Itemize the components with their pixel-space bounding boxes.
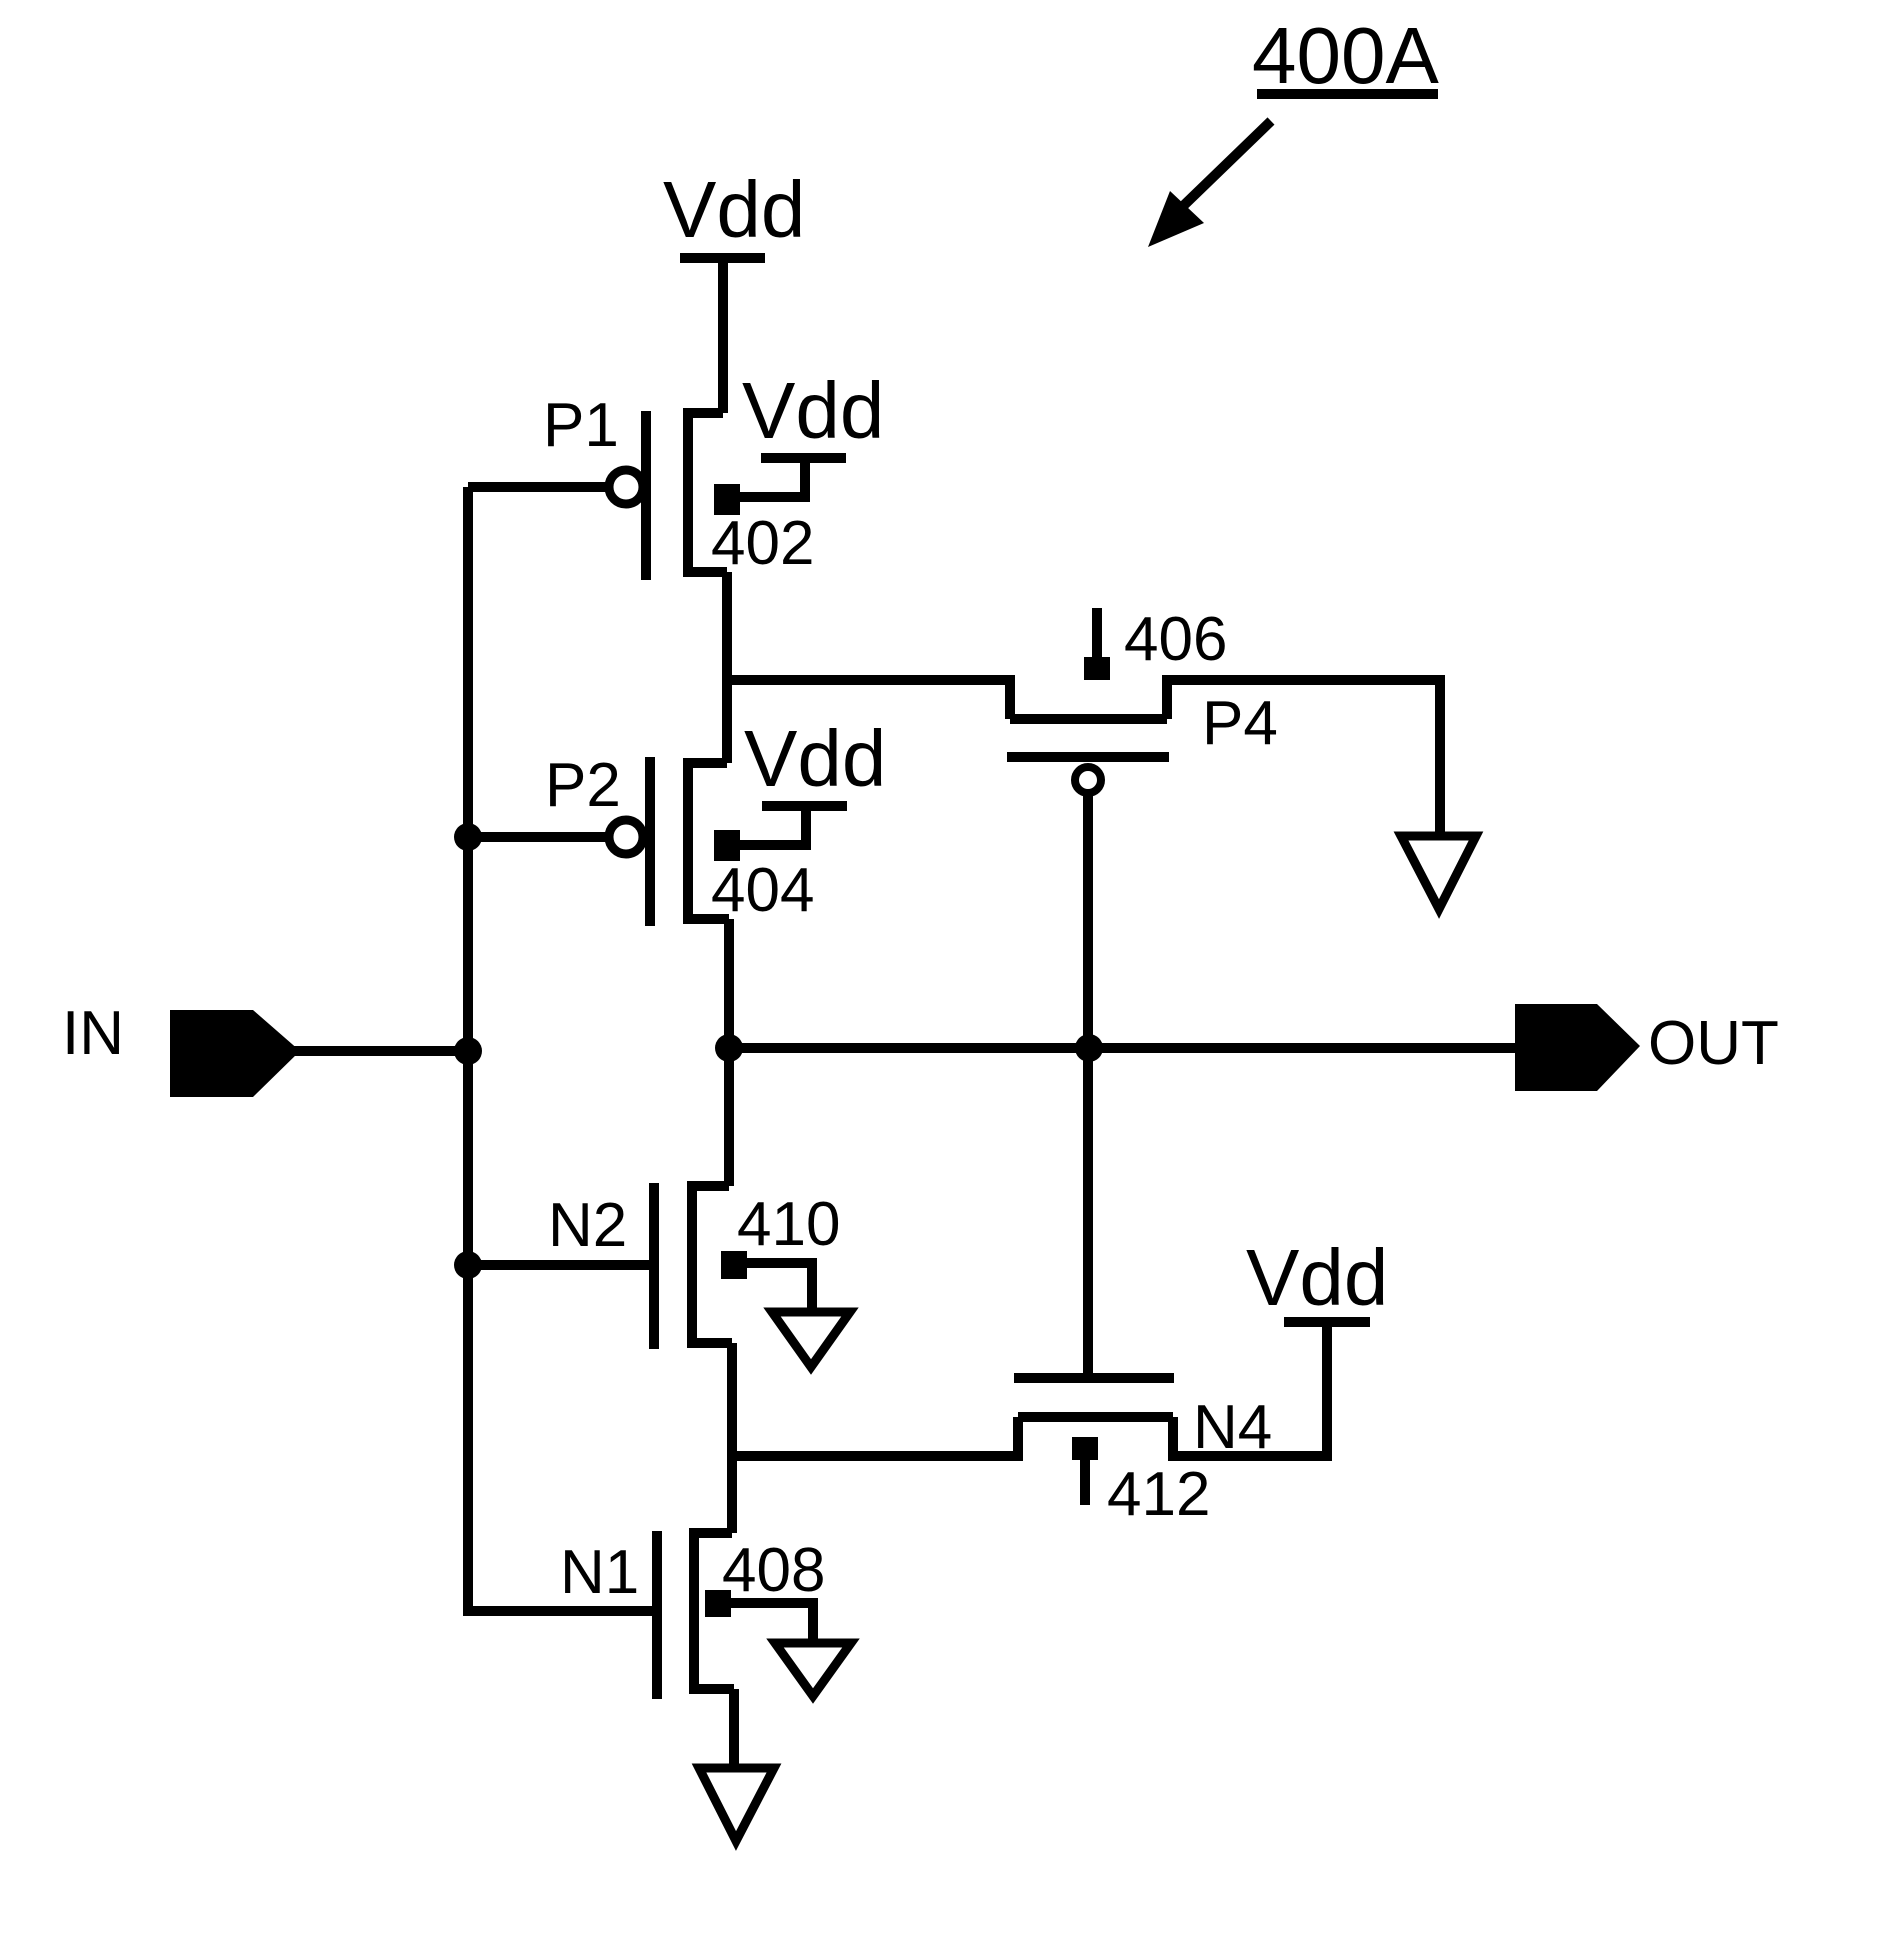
P2 label	[545, 751, 621, 820]
Vdd label (top supply)	[663, 165, 805, 254]
P2 bulk square 404	[714, 830, 740, 861]
P1 channel	[688, 413, 727, 572]
svg-text:P4: P4	[1202, 689, 1278, 758]
N2 label	[548, 1191, 627, 1260]
P4 drain lead to ground	[1167, 680, 1440, 832]
svg-text:N2: N2	[548, 1191, 627, 1260]
P4 gate bar	[1007, 752, 1169, 762]
svg-text:412: 412	[1107, 1460, 1210, 1529]
Vdd bar for N4	[1284, 1317, 1370, 1327]
svg-text:Vdd: Vdd	[744, 714, 886, 803]
wire N2 source to N1 drain	[727, 1343, 737, 1533]
node dot IN junction	[454, 1037, 482, 1065]
N2 gate bar	[649, 1183, 659, 1349]
svg-text:P1: P1	[543, 391, 619, 460]
P4 label	[1202, 689, 1278, 758]
N4 gate bar	[1014, 1373, 1174, 1383]
N1 ground symbol	[699, 1768, 774, 1841]
svg-text:404: 404	[711, 856, 814, 925]
Vdd supply bar (top)	[680, 253, 765, 263]
svg-text:406: 406	[1124, 605, 1227, 674]
P4 channel	[1010, 714, 1167, 724]
Vdd label for 404	[744, 714, 886, 803]
N1 bulk square 408	[705, 1590, 731, 1617]
P1 bulk wire to Vdd	[740, 458, 805, 497]
N4 label	[1193, 1393, 1272, 1462]
wire N2/N1 node to N4 source	[732, 1417, 1018, 1456]
P1 label	[543, 391, 619, 460]
svg-text:Vdd: Vdd	[742, 366, 884, 455]
N4 right lead to Vdd	[1173, 1322, 1327, 1456]
label 412	[1107, 1460, 1210, 1529]
P4 bulk stub	[1092, 608, 1102, 657]
wire Vdd bar to P1 source	[718, 258, 728, 413]
N4 bulk square 412	[1072, 1437, 1098, 1460]
label 408	[722, 1536, 825, 1605]
wire P2 drain to OUT node	[724, 919, 734, 1186]
OUT label	[1648, 1009, 1779, 1078]
IN pad	[170, 1010, 300, 1097]
N1 gate wire (rail corner)	[468, 1265, 657, 1611]
node dot OUT at drain chain	[715, 1034, 743, 1062]
N1 gate bar	[652, 1531, 662, 1699]
N4 bulk stub	[1080, 1459, 1090, 1505]
Vdd bar for 402	[761, 453, 846, 463]
label 402	[711, 509, 814, 578]
Vdd label for 402	[742, 366, 884, 455]
OUT wire	[729, 1043, 1516, 1053]
svg-text:P2: P2	[545, 751, 621, 820]
N1 bulk wire to ground	[731, 1603, 813, 1639]
svg-text:N4: N4	[1193, 1393, 1272, 1462]
label 410	[737, 1190, 840, 1259]
svg-text:N1: N1	[560, 1538, 639, 1607]
svg-text:410: 410	[737, 1190, 840, 1259]
P2 channel	[688, 763, 729, 919]
Vdd label for N4	[1246, 1233, 1388, 1322]
N1 bulk ground symbol	[775, 1643, 851, 1696]
IN gate rail (left vertical)	[463, 487, 473, 1611]
wire P1 drain to P2 source	[722, 572, 732, 763]
N2 gate wire	[468, 1260, 654, 1270]
P2 gate bubble	[609, 820, 643, 854]
svg-text:OUT: OUT	[1648, 1009, 1779, 1078]
P1 gate bubble	[609, 470, 643, 504]
IN wire	[292, 1046, 468, 1056]
P2 gate wire	[468, 832, 606, 842]
IN label	[62, 999, 124, 1068]
P1 gate wire	[468, 482, 606, 492]
label 400A	[1252, 11, 1439, 100]
svg-text:402: 402	[711, 509, 814, 578]
P4 ground symbol	[1401, 836, 1476, 909]
N1 source lead	[729, 1689, 739, 1764]
node dot on IN rail at N2 gate	[454, 1251, 482, 1279]
P2 gate bar	[645, 757, 655, 926]
P2 bulk wire to Vdd	[740, 806, 806, 845]
N2 bulk square 410	[721, 1251, 747, 1279]
OUT pad	[1515, 1004, 1640, 1091]
wire node between P1/P2 to P4 source	[727, 680, 1010, 719]
leader arrow to 400A	[1180, 121, 1271, 209]
svg-text:Vdd: Vdd	[1246, 1233, 1388, 1322]
label 406	[1124, 605, 1227, 674]
P1 gate bar	[641, 411, 651, 580]
N2 channel	[692, 1186, 732, 1343]
N2 bulk ground symbol	[772, 1312, 850, 1367]
svg-text:Vdd: Vdd	[663, 165, 805, 254]
N1 label	[560, 1538, 639, 1607]
node dot on IN rail at P2 gate	[454, 823, 482, 851]
P4 bulk square 406	[1084, 657, 1110, 680]
wire P4 gate to OUT node and N4 gate	[1083, 793, 1093, 1378]
label 404	[711, 856, 814, 925]
svg-text:408: 408	[722, 1536, 825, 1605]
underline of 400A	[1257, 89, 1438, 99]
P4 gate bubble	[1075, 767, 1101, 793]
N2 bulk wire to ground	[747, 1263, 812, 1308]
Vdd bar for 404	[762, 801, 847, 811]
svg-text:IN: IN	[62, 999, 124, 1068]
node dot OUT at P4/N4 gate line	[1075, 1034, 1103, 1062]
N4 channel	[1018, 1412, 1173, 1422]
svg-text:400A: 400A	[1252, 11, 1439, 100]
P1 bulk square 402	[714, 484, 740, 515]
N1 channel	[694, 1533, 734, 1689]
